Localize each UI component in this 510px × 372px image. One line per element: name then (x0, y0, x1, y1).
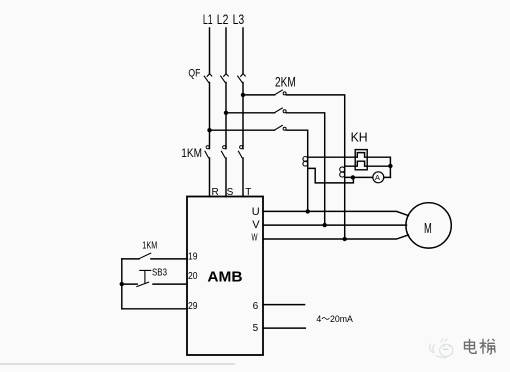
svg-text:1KM: 1KM (142, 241, 157, 252)
svg-text:V: V (252, 219, 260, 231)
svg-text:KH: KH (351, 130, 368, 145)
svg-text:QF: QF (188, 68, 200, 80)
svg-text:19: 19 (188, 251, 198, 262)
svg-text:L2: L2 (217, 11, 229, 27)
svg-text:R: R (212, 187, 219, 198)
svg-text:29: 29 (188, 301, 198, 312)
svg-text:U: U (252, 206, 260, 218)
svg-text:6: 6 (253, 301, 259, 312)
svg-text:4～20mA: 4～20mA (316, 314, 353, 324)
svg-text:2KM: 2KM (275, 74, 296, 89)
svg-text:T: T (245, 187, 251, 198)
svg-text:M: M (424, 221, 432, 237)
svg-text:S: S (227, 187, 234, 198)
svg-text:W: W (252, 231, 258, 243)
svg-text:SB3: SB3 (152, 268, 167, 279)
svg-text:AMB: AMB (207, 270, 242, 286)
svg-text:1KM: 1KM (181, 147, 202, 160)
svg-text:5: 5 (253, 323, 259, 334)
svg-text:20: 20 (188, 271, 198, 282)
svg-text:L1: L1 (203, 11, 213, 27)
svg-text:L3: L3 (233, 11, 245, 27)
